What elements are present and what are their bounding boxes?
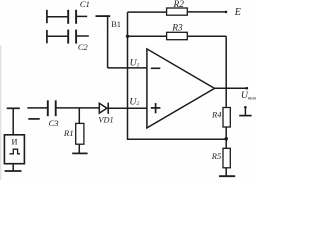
- svg-text:R3: R3: [171, 23, 183, 33]
- svg-text:VD1: VD1: [98, 116, 113, 125]
- svg-text:C2: C2: [78, 42, 89, 52]
- svg-text:B1: B1: [111, 20, 121, 29]
- svg-text:R4: R4: [211, 110, 222, 120]
- svg-text:И: И: [12, 138, 18, 147]
- svg-text:E: E: [234, 7, 241, 18]
- svg-text:R5: R5: [211, 151, 221, 161]
- svg-text:R2: R2: [173, 0, 185, 10]
- svg-text:R1: R1: [63, 128, 74, 138]
- svg-text:C1: C1: [80, 0, 90, 9]
- svg-text:C3: C3: [49, 118, 59, 128]
